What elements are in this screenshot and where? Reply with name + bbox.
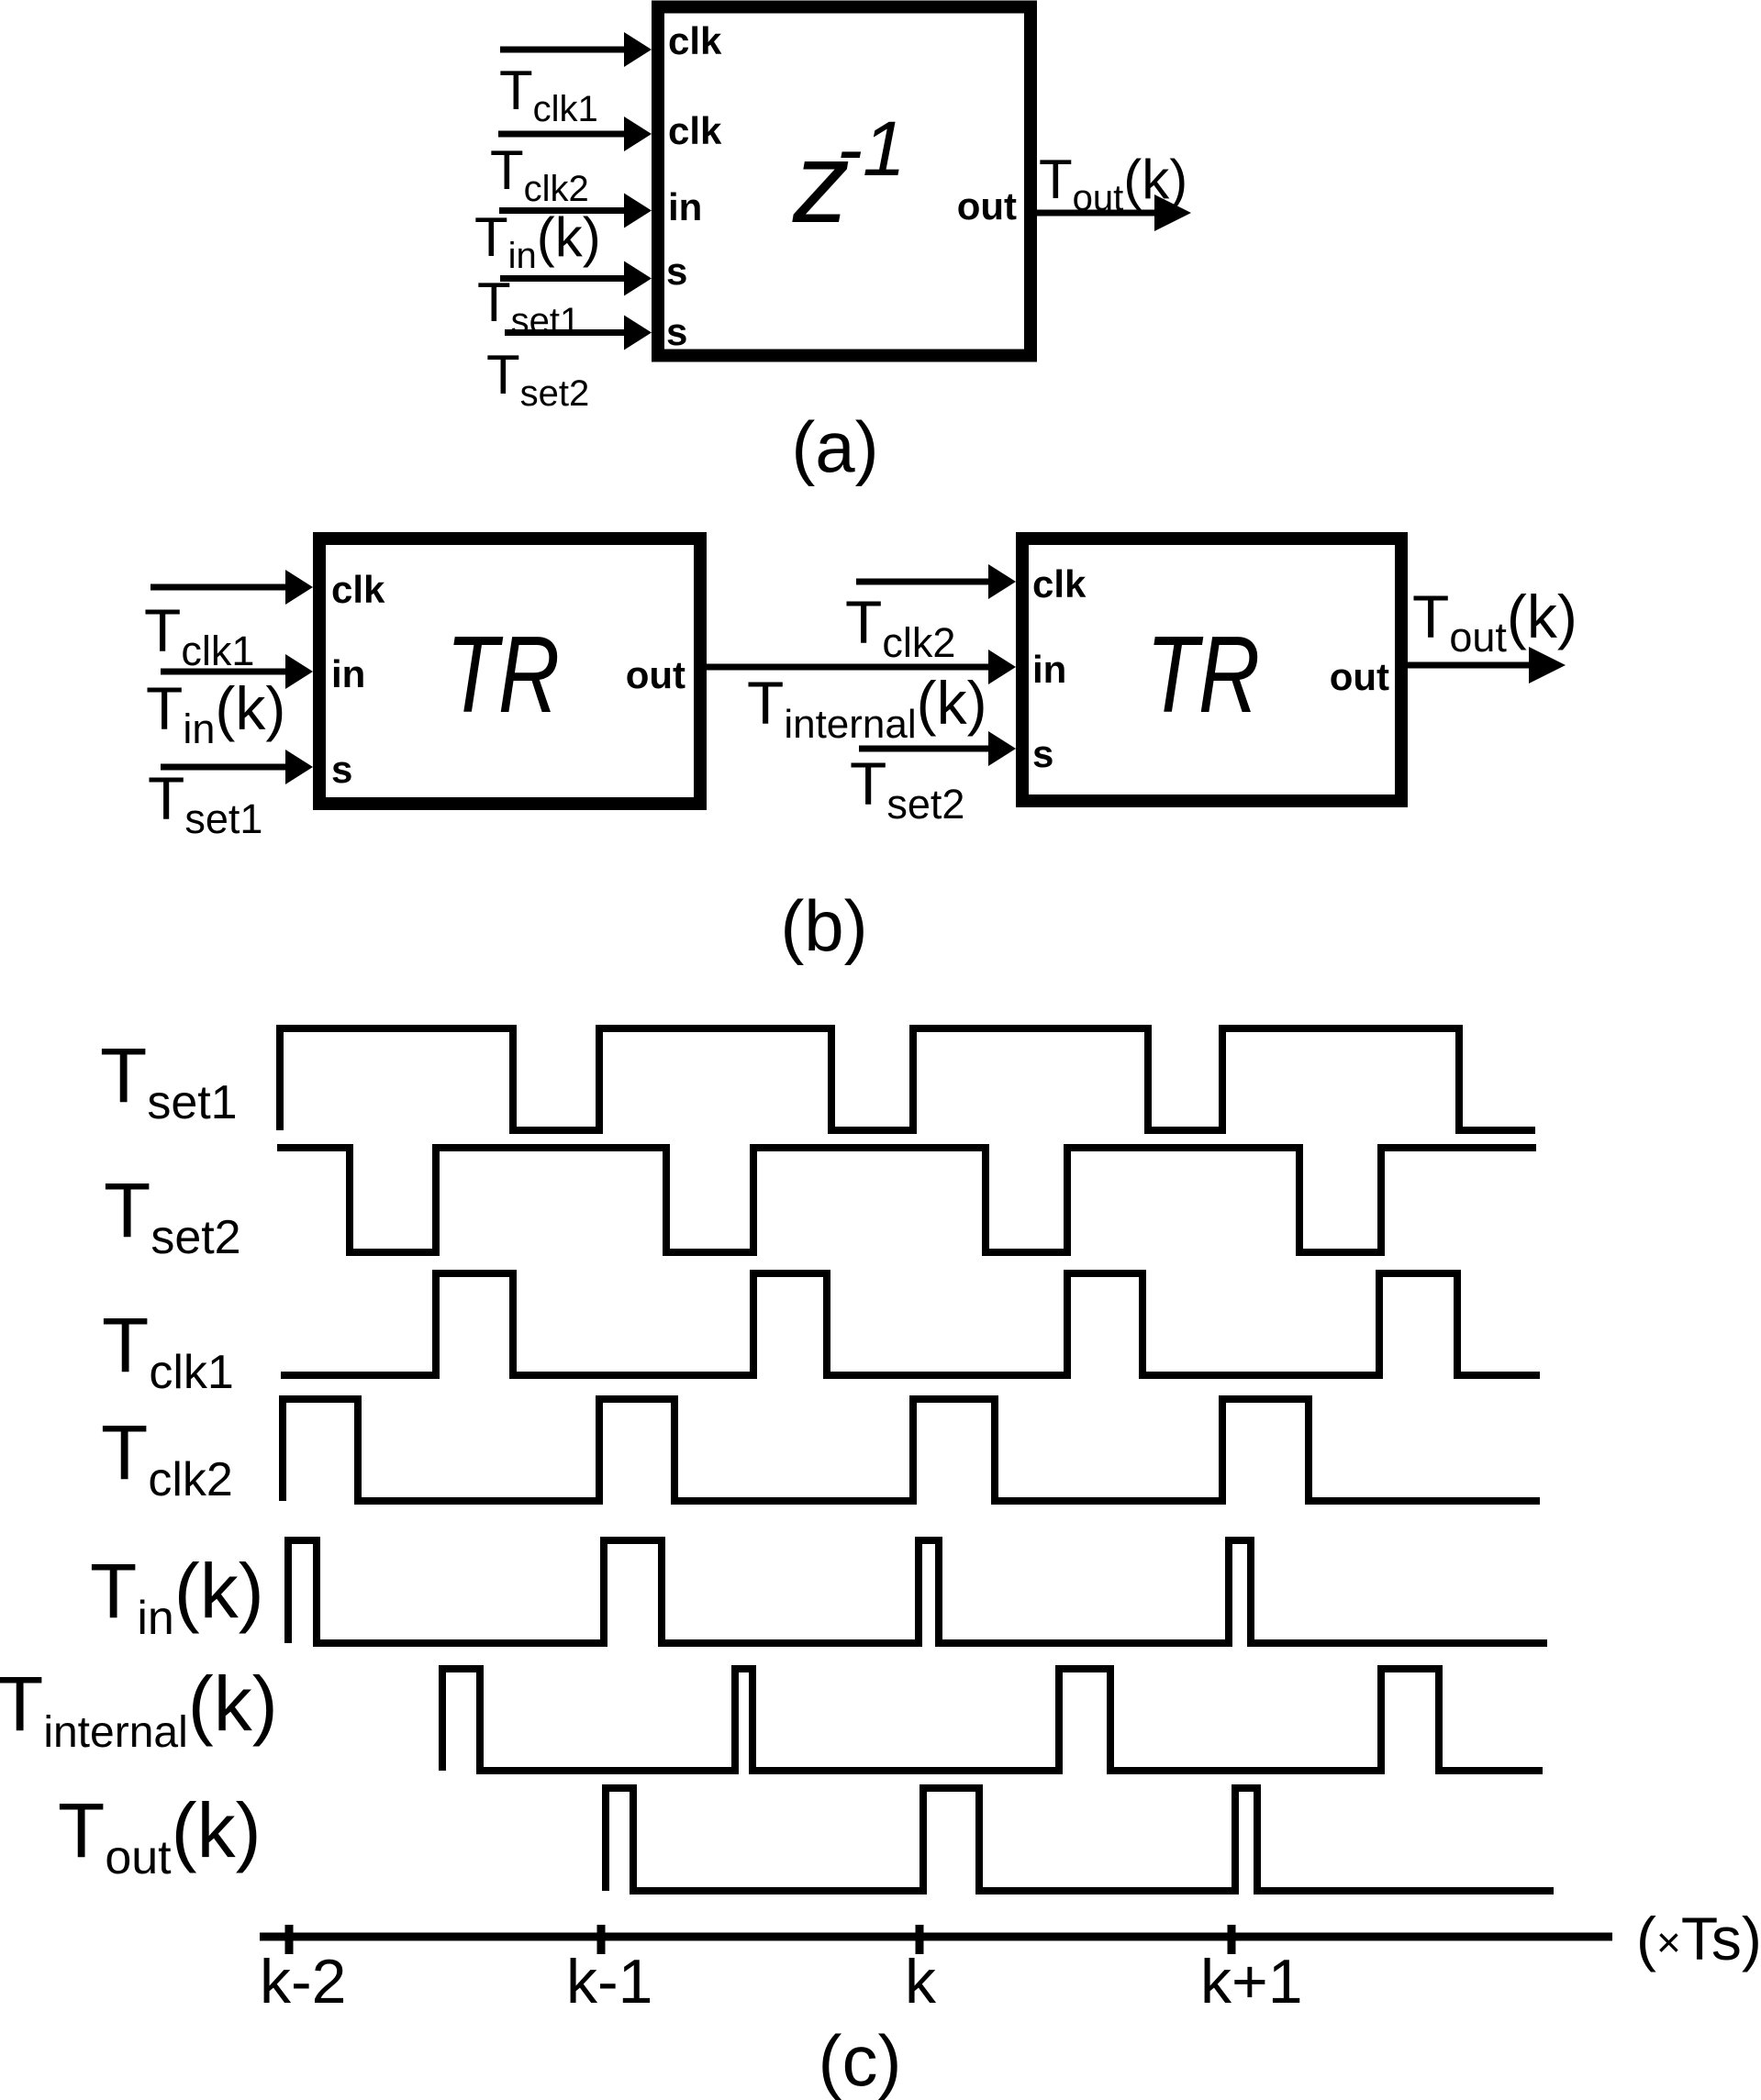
svg-text:s: s <box>331 748 352 791</box>
net label T_set2 <box>486 344 589 414</box>
block U3: right TR register <box>1022 539 1401 801</box>
axis tick k-1 <box>597 1925 606 1954</box>
net label T_clk2 <box>490 139 589 209</box>
svg-text:clk: clk <box>668 109 722 152</box>
svg-text:k-1: k-1 <box>566 1947 652 2017</box>
axis tick k-2 <box>285 1925 294 1954</box>
pin label clk (U1 second clk pin) <box>668 109 722 152</box>
svg-text:k: k <box>905 1947 937 2017</box>
axis tick label k <box>905 1947 937 2017</box>
waveform T_out(k) <box>606 1788 1554 1891</box>
label TR inside U3 <box>1146 614 1260 736</box>
wire T_clk2 to U1 clk <box>498 117 652 151</box>
svg-text:s: s <box>666 310 687 353</box>
axis unit label (xTs) <box>1636 1905 1761 1972</box>
net label T_in(k) (part b) <box>146 674 285 752</box>
svg-text:TR: TR <box>1146 614 1260 736</box>
waveform T_set2 <box>277 1148 1536 1252</box>
wire T_out(k) from U3 out <box>1408 647 1566 683</box>
waveform T_in(k) <box>288 1540 1547 1643</box>
svg-text:in: in <box>331 652 365 695</box>
caption (c) <box>819 2020 902 2100</box>
label z^-1 inside U1 <box>792 106 906 247</box>
time axis <box>260 1933 1612 1941</box>
block U1: z^-1 delay element <box>658 7 1031 356</box>
svg-text:Tin(k): Tin(k) <box>90 1548 264 1645</box>
pin label clk (U1 top clk pin) <box>668 19 722 62</box>
axis tick label k-2 <box>260 1947 346 2017</box>
pin label clk (U2) <box>331 568 385 611</box>
pin label in (U2) <box>331 652 365 695</box>
pin label s (U2) <box>331 748 352 791</box>
wire T_set1 to U2 s <box>161 750 313 784</box>
svg-text:(×Ts): (×Ts) <box>1636 1905 1761 1972</box>
wire T_internal(k) from U2 out to U3 in <box>707 650 1016 684</box>
svg-text:out: out <box>1330 655 1389 698</box>
signal label T_set1 <box>100 1032 238 1129</box>
signal label T_clk1 <box>102 1302 234 1399</box>
label TR inside U2 <box>446 614 560 736</box>
net label T_in(k) <box>474 206 601 276</box>
net label T_set1 <box>477 272 580 341</box>
waveform T_set1 <box>280 1028 1535 1130</box>
svg-text:(c): (c) <box>819 2020 902 2100</box>
wire T_in(k) to U2 in <box>161 654 313 689</box>
net label T_out(k) (part a) <box>1039 149 1187 218</box>
svg-text:s: s <box>666 250 687 293</box>
pin label in (U3) <box>1032 648 1066 691</box>
svg-text:k-2: k-2 <box>260 1947 346 2017</box>
signal label T_set2 <box>104 1167 241 1264</box>
signal label T_internal(k) <box>0 1661 278 1757</box>
net label T_clk1 <box>499 60 598 129</box>
net label T_internal(k) <box>747 669 987 747</box>
caption (a) <box>791 406 878 487</box>
wire T_out(k) from U1 out <box>1037 194 1191 231</box>
svg-text:in: in <box>668 185 702 228</box>
svg-text:clk: clk <box>331 568 385 611</box>
waveform T_clk2 <box>283 1399 1540 1501</box>
wire T_clk1 to U2 clk <box>150 570 313 605</box>
svg-text:TR: TR <box>446 614 560 736</box>
pin label s (U1 second s pin) <box>666 310 687 353</box>
net label T_out(k) (part b) <box>1412 583 1577 661</box>
waveform T_internal(k) <box>442 1669 1543 1771</box>
svg-text:(a): (a) <box>791 406 878 487</box>
axis tick k+1 <box>1228 1925 1236 1954</box>
wire T_in(k) to U1 in <box>499 194 652 228</box>
caption (b) <box>780 885 867 966</box>
pin label out (U3) <box>1330 655 1389 698</box>
svg-text:out: out <box>626 653 685 696</box>
axis tick k <box>916 1925 924 1954</box>
net label T_set1 (part b) <box>148 764 262 842</box>
axis tick label k-1 <box>566 1947 652 2017</box>
svg-text:k+1: k+1 <box>1200 1947 1303 2017</box>
pin label s (U3) <box>1032 732 1053 775</box>
svg-text:s: s <box>1032 732 1053 775</box>
wire T_set1 to U1 s <box>500 261 652 296</box>
signal label T_in(k) <box>90 1548 264 1645</box>
axis tick label k+1 <box>1200 1947 1303 2017</box>
svg-text:Tin(k): Tin(k) <box>146 674 285 752</box>
svg-text:out: out <box>957 184 1017 228</box>
net label T_set2 (part b) <box>850 750 964 828</box>
wire T_clk2 to U3 clk <box>856 564 1016 599</box>
signal label T_out(k) <box>58 1787 262 1884</box>
pin label out (U1) <box>957 184 1017 228</box>
svg-text:(b): (b) <box>780 885 867 966</box>
svg-text:in: in <box>1032 648 1066 691</box>
pin label s (U1 first s pin) <box>666 250 687 293</box>
wire T_set2 to U1 s <box>505 316 652 350</box>
net label T_clk2 (part b) <box>845 588 955 666</box>
block U2: left TR register <box>319 539 700 804</box>
signal label T_clk2 <box>101 1409 233 1506</box>
pin label clk (U3) <box>1032 562 1087 606</box>
net label T_clk1 (part b) <box>144 596 254 674</box>
svg-text:Tin(k): Tin(k) <box>474 206 601 276</box>
svg-text:clk: clk <box>668 19 722 62</box>
pin label in (U1) <box>668 185 702 228</box>
svg-text:clk: clk <box>1032 562 1087 606</box>
pin label out (U2) <box>626 653 685 696</box>
waveform T_clk1 <box>281 1273 1540 1375</box>
wire T_clk1 to U1 clk <box>500 32 652 67</box>
wire T_set2 to U3 s <box>859 731 1016 766</box>
